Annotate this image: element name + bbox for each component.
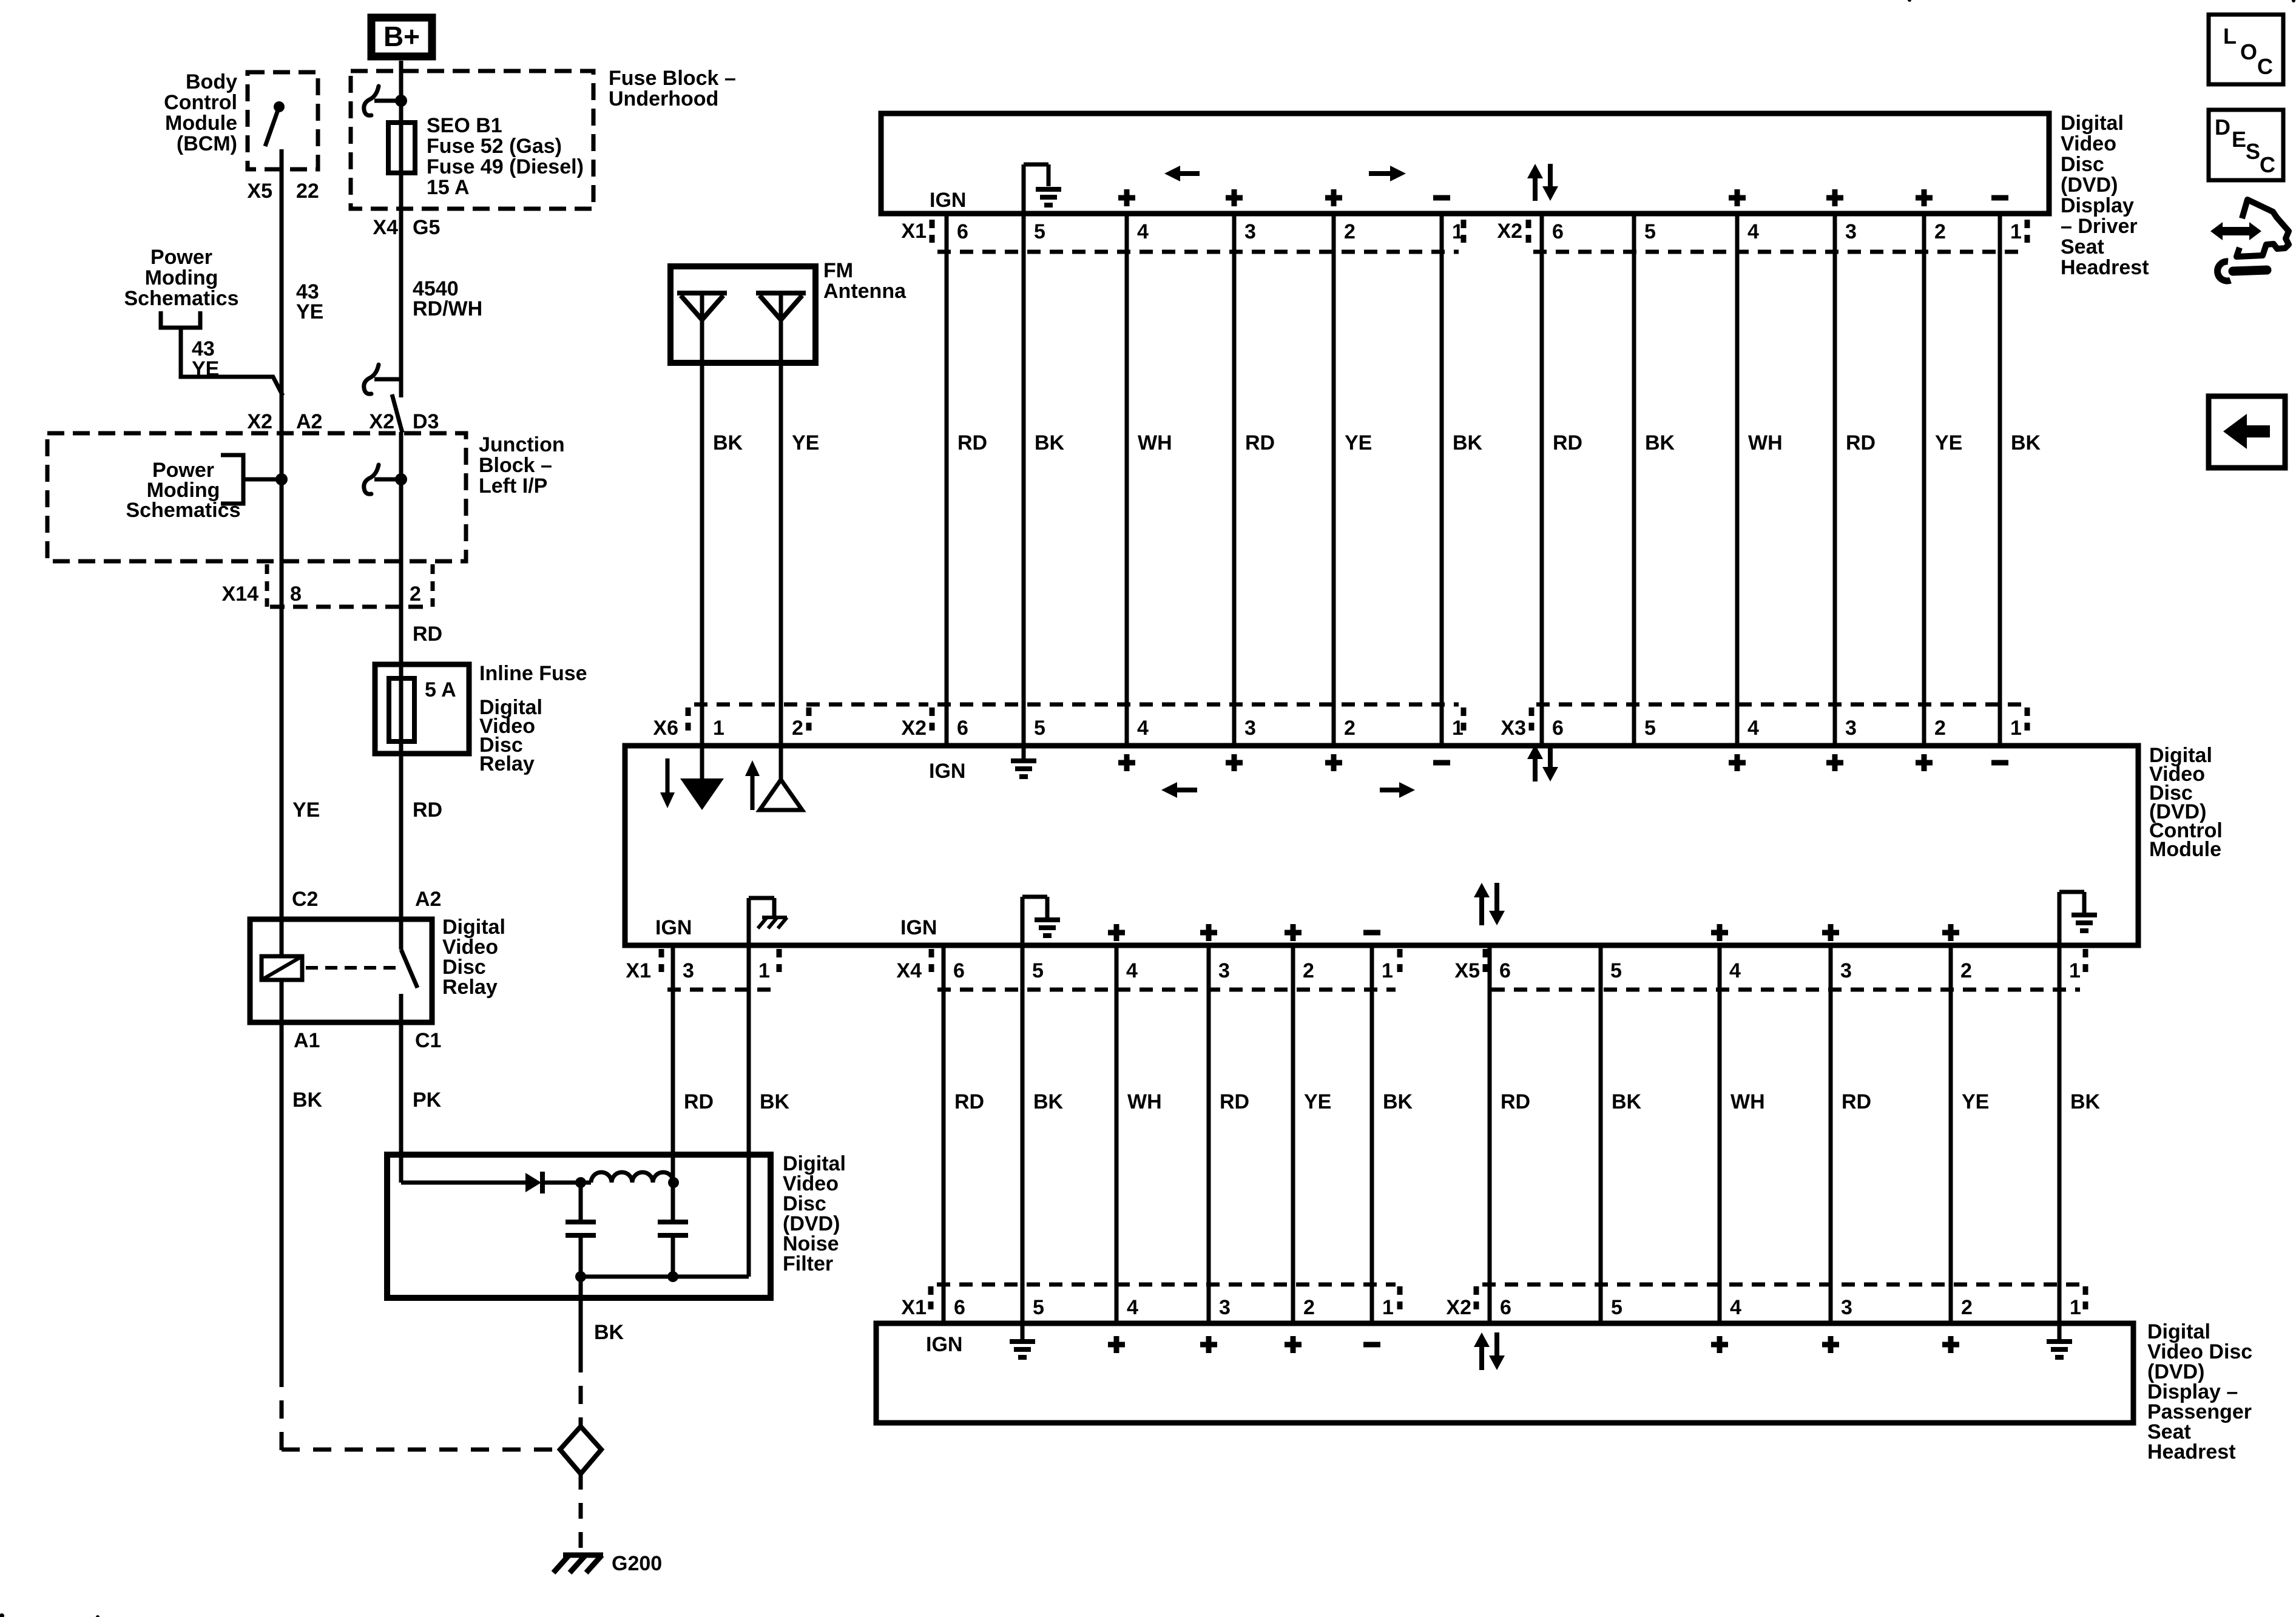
svg-text:4: 4: [1137, 220, 1149, 243]
control module plus X4-3: [1200, 924, 1217, 941]
wire X5 pin 5: [1599, 945, 1603, 1323]
svg-text:X4: X4: [896, 959, 922, 982]
control module chassis ground X1-1: [747, 898, 751, 945]
svg-text:C: C: [2257, 54, 2273, 79]
wire X4 pin 1: [1370, 945, 1374, 1323]
svg-text:6: 6: [957, 717, 968, 740]
svg-text:X3: X3: [1501, 717, 1526, 740]
svg-text:2: 2: [1344, 717, 1356, 740]
wire X5 pin 3: [1829, 945, 1833, 1323]
svg-text:G200: G200: [612, 1552, 662, 1575]
svg-text:(DVD): (DVD): [2061, 174, 2118, 197]
svg-text:– Driver: – Driver: [2061, 215, 2138, 238]
svg-text:Schematics: Schematics: [124, 287, 239, 310]
svg-text:3: 3: [683, 959, 694, 982]
relay switch stub bottom: [399, 994, 403, 1022]
control module plus X4-4: [1108, 924, 1125, 941]
svg-text:Control: Control: [164, 91, 237, 114]
svg-text:Disc: Disc: [2061, 153, 2104, 176]
svg-text:4: 4: [1729, 959, 1741, 982]
svg-text:3: 3: [1244, 220, 1256, 243]
svg-text:BK: BK: [2070, 1090, 2101, 1113]
passenger plus X1-4: [1108, 1336, 1125, 1353]
junction dot on left wire: [275, 473, 288, 485]
svg-text:BK: BK: [1645, 431, 1675, 454]
control module minus X3-1: [1991, 760, 2008, 766]
svg-text:YE: YE: [792, 431, 819, 454]
wire splice to G200: [579, 1474, 583, 1552]
connector hook at fuse block B+ entry: [364, 86, 379, 115]
svg-text:X1: X1: [901, 220, 927, 243]
svg-text:RD: RD: [1553, 431, 1582, 454]
wire fuse to X2-D3: [399, 173, 403, 397]
connector dashed X2 control: [937, 703, 1459, 707]
svg-text:Fuse Block –: Fuse Block –: [609, 67, 736, 90]
svg-text:8: 8: [290, 582, 302, 606]
wire coil to A1: [280, 980, 284, 1022]
svg-text:5: 5: [1033, 1296, 1044, 1319]
svg-text:2: 2: [1934, 220, 1946, 243]
svg-text:1: 1: [2010, 220, 2022, 243]
svg-text:WH: WH: [1748, 431, 1783, 454]
svg-text:3: 3: [1845, 717, 1857, 740]
control module ground top: [1022, 748, 1026, 758]
svg-text:Junction: Junction: [479, 433, 565, 456]
passenger plus X2-2: [1942, 1336, 1959, 1353]
svg-text:4: 4: [1747, 717, 1759, 740]
svg-text:1: 1: [713, 717, 724, 740]
svg-text:(BCM): (BCM): [177, 132, 237, 155]
svg-text:BK: BK: [760, 1090, 790, 1113]
connector dashed line X1 driver: [937, 250, 1459, 254]
inductor L1: [591, 1172, 674, 1183]
svg-text:5: 5: [1644, 717, 1656, 740]
svg-text:1: 1: [2069, 959, 2081, 982]
svg-text:C1: C1: [415, 1029, 441, 1052]
connector dashed X3 control: [1536, 703, 2022, 707]
vehicle connector location icon: [2210, 200, 2289, 281]
svg-text:X1: X1: [901, 1296, 927, 1319]
wire X4 pin 5: [1021, 945, 1025, 1323]
svg-text:3: 3: [1244, 717, 1256, 740]
driver display plus X2-4: [1729, 189, 1746, 206]
DESC icon box: [2209, 110, 2283, 180]
wire driver display col 10: [1833, 214, 1837, 748]
connector dashed X1 passenger: [937, 1283, 1396, 1287]
antenna stub YE inside module: [779, 748, 783, 781]
svg-text:3: 3: [1841, 1296, 1852, 1319]
connector dashed X2 passenger: [1482, 1283, 2080, 1287]
wire X4 pin 2: [1291, 945, 1295, 1323]
wire driver display col 6: [1440, 214, 1444, 748]
svg-text:Power: Power: [150, 246, 212, 269]
svg-text:2: 2: [1961, 1296, 1973, 1319]
wire driver display col 5: [1332, 214, 1336, 748]
junction block left I/P dashed box: [47, 433, 466, 561]
connector hook at X2-D3: [364, 365, 379, 394]
svg-text:C2: C2: [292, 888, 318, 911]
svg-text:3: 3: [1840, 959, 1852, 982]
antenna element BK: [677, 291, 727, 295]
svg-text:Display: Display: [2061, 194, 2134, 217]
wire driver display col 8: [1632, 214, 1636, 748]
passenger plus X2-4: [1711, 1336, 1728, 1353]
wire driver display col 2: [1022, 214, 1026, 748]
svg-text:2: 2: [1303, 1296, 1315, 1319]
svg-text:4: 4: [1127, 1296, 1138, 1319]
svg-text:C: C: [2260, 152, 2275, 177]
svg-text:IGN: IGN: [930, 189, 966, 212]
driver display plus X2-3: [1826, 189, 1843, 206]
svg-text:5: 5: [1611, 1296, 1622, 1319]
back arrow icon box: [2209, 396, 2285, 468]
svg-text:A2: A2: [296, 410, 322, 433]
relay coil: [262, 956, 302, 980]
svg-text:4: 4: [1730, 1296, 1741, 1319]
svg-text:1: 1: [1382, 959, 1393, 982]
svg-text:S: S: [2246, 139, 2260, 164]
wire from bracket to BCM wire: [181, 328, 283, 396]
svg-text:X2: X2: [901, 717, 927, 740]
svg-text:6: 6: [957, 220, 968, 243]
page artifact top mark 1: [1908, 0, 1911, 2]
driver display left arrow: [1179, 171, 1200, 176]
svg-text:RD: RD: [1842, 1090, 1871, 1113]
FM antenna box: [670, 266, 815, 363]
node D dot: [667, 1271, 678, 1282]
svg-text:1: 1: [2010, 717, 2022, 740]
svg-text:RD: RD: [413, 623, 442, 646]
svg-text:RD/WH: RD/WH: [413, 297, 482, 320]
svg-text:2: 2: [792, 717, 803, 740]
svg-text:SEO B1: SEO B1: [427, 114, 502, 137]
control module updown X5-6: [1479, 895, 1484, 925]
connector dashed X6: [694, 703, 928, 707]
passenger plus X1-2: [1285, 1336, 1302, 1353]
svg-text:BK: BK: [1035, 431, 1065, 454]
svg-text:2: 2: [1303, 959, 1314, 982]
svg-text:X2: X2: [369, 410, 394, 433]
antenna stub BK inside module: [700, 748, 704, 780]
diode: [525, 1173, 541, 1192]
svg-text:6: 6: [953, 959, 965, 982]
wire X5 pin 4: [1718, 945, 1722, 1323]
svg-text:15 A: 15 A: [427, 176, 470, 199]
capacitor C2 noise filter: [671, 1183, 675, 1222]
svg-text:IGN: IGN: [900, 916, 937, 939]
svg-text:Digital: Digital: [2061, 112, 2124, 135]
wire A1 BK dashed to splice: [280, 1369, 284, 1451]
control module updown X3-6: [1533, 757, 1538, 781]
svg-text:L: L: [2223, 24, 2237, 49]
DVD display passenger seat headrest box: [876, 1323, 2133, 1423]
DVD relay box: [250, 919, 432, 1022]
wire driver display col 4: [1232, 214, 1237, 748]
svg-text:Body: Body: [186, 70, 237, 93]
BCM switch blade: [265, 107, 279, 146]
svg-text:X6: X6: [653, 717, 678, 740]
driver display plus pin2: [1325, 189, 1342, 206]
svg-text:RD: RD: [1501, 1090, 1530, 1113]
svg-text:X5: X5: [247, 180, 272, 203]
wire driver display col 12: [1998, 214, 2002, 748]
svg-text:4: 4: [1747, 220, 1759, 243]
svg-text:1: 1: [758, 959, 770, 982]
svg-text:X14: X14: [222, 582, 259, 606]
svg-text:D: D: [2215, 115, 2230, 140]
control module minus X2-1: [1433, 760, 1450, 766]
svg-text:BK: BK: [2011, 431, 2041, 454]
wire X1-3 RD to noise filter: [671, 945, 675, 1155]
svg-text:1: 1: [2070, 1296, 2081, 1319]
connector dashed X4: [937, 988, 1396, 992]
svg-text:PK: PK: [413, 1089, 442, 1112]
control module right arrow: [1380, 788, 1400, 792]
svg-text:1: 1: [1382, 1296, 1394, 1319]
control module plus X5-2: [1942, 924, 1959, 941]
wire X4 pin 4: [1115, 945, 1119, 1323]
svg-text:O: O: [2240, 39, 2257, 64]
svg-text:2: 2: [1960, 959, 1972, 982]
svg-text:Relay: Relay: [479, 752, 535, 775]
control module plus X2-4: [1118, 754, 1135, 771]
svg-text:Relay: Relay: [442, 976, 498, 999]
svg-text:RD: RD: [957, 431, 987, 454]
driver display updown arrows: [1533, 176, 1538, 201]
connector hook at junction block right wire: [364, 465, 379, 494]
wire bracket to left wire: [243, 478, 282, 482]
svg-text:BK: BK: [1383, 1090, 1413, 1113]
svg-text:BK: BK: [594, 1321, 624, 1344]
svg-text:FM: FM: [823, 259, 853, 282]
svg-text:6: 6: [1552, 220, 1564, 243]
svg-text:5: 5: [1644, 220, 1656, 243]
wire X5 pin 1: [2058, 945, 2062, 1323]
wire diode to node A: [542, 1181, 591, 1185]
splice diamond: [560, 1426, 601, 1474]
svg-text:Module: Module: [165, 112, 237, 135]
wire X4 pin 3: [1207, 945, 1211, 1323]
battery feed B+ terminal: [371, 18, 432, 56]
DVD control module box: [625, 746, 2138, 945]
svg-text:X2: X2: [1497, 220, 1522, 243]
wire X5 pin 6: [1488, 945, 1492, 1323]
driver display plus pin4: [1118, 189, 1135, 206]
control module ground X4-5: [1021, 897, 1025, 945]
body control module BCM dashed box: [248, 72, 318, 169]
svg-text:YE: YE: [292, 798, 320, 822]
svg-text:Block –: Block –: [479, 454, 552, 477]
junction dot on right wire: [395, 473, 407, 485]
capacitor C1 noise filter: [579, 1183, 583, 1222]
svg-text:4: 4: [1126, 959, 1138, 982]
chassis ground G200: [563, 1553, 603, 1558]
ground rail in noise filter: [581, 1275, 749, 1279]
DVD display driver seat headrest box: [881, 113, 2049, 214]
svg-text:WH: WH: [1127, 1090, 1162, 1113]
control module plus X2-2: [1325, 754, 1342, 771]
svg-text:E: E: [2232, 127, 2246, 152]
svg-text:WH: WH: [1730, 1090, 1765, 1113]
wire PK to diode: [401, 1181, 525, 1185]
svg-text:5: 5: [1032, 959, 1044, 982]
svg-text:YE: YE: [1935, 431, 1962, 454]
svg-text:IGN: IGN: [655, 916, 692, 939]
control module plus X5-3: [1822, 924, 1839, 941]
svg-text:Filter: Filter: [783, 1252, 833, 1275]
control module plus X2-3: [1226, 754, 1243, 771]
antenna wire BK: [700, 293, 704, 748]
svg-text:A1: A1: [294, 1029, 320, 1052]
wire RD from X1-3 into filter: [671, 1155, 675, 1183]
antenna wire YE: [779, 293, 783, 748]
fuse SEO B1 52/49 15A: [388, 123, 415, 173]
svg-text:Module: Module: [2149, 838, 2221, 861]
svg-text:5: 5: [1034, 220, 1045, 243]
wire driver display col 9: [1735, 214, 1740, 748]
svg-text:Headrest: Headrest: [2061, 256, 2149, 279]
fuse block underhood dashed box: [351, 71, 593, 209]
svg-text:X1: X1: [626, 959, 651, 982]
driver display minus X2-1: [1991, 195, 2008, 201]
svg-text:6: 6: [1552, 717, 1564, 740]
driver display right arrow: [1369, 171, 1391, 176]
svg-text:RD: RD: [413, 798, 442, 822]
svg-text:Seat: Seat: [2061, 235, 2104, 258]
svg-text:RD: RD: [1220, 1090, 1249, 1113]
svg-text:6: 6: [1500, 1296, 1511, 1319]
wire C1 PK down to noise filter: [399, 1022, 403, 1183]
svg-text:X2: X2: [247, 410, 272, 433]
svg-text:2: 2: [1344, 220, 1356, 243]
svg-text:22: 22: [296, 180, 319, 203]
connector dashed line X2 driver: [1533, 250, 2022, 254]
svg-text:Video: Video: [2061, 132, 2116, 155]
svg-text:2: 2: [410, 582, 421, 606]
control module left arrow: [1176, 788, 1197, 792]
LOC icon box: [2209, 15, 2283, 84]
page artifact dot bottom left: [0, 1613, 4, 1617]
wire driver display col 7: [1540, 214, 1544, 748]
wire B+ to fuse block: [399, 61, 403, 173]
control module ground X5-1: [2058, 892, 2062, 945]
connector dashed X1 bottom: [667, 988, 775, 992]
svg-text:Underhood: Underhood: [609, 87, 718, 110]
passenger updown X2-6: [1479, 1345, 1484, 1370]
wire BK filter to ground splice: [579, 1277, 583, 1354]
passenger plus X2-3: [1822, 1336, 1839, 1353]
wire C2 into coil: [280, 919, 284, 956]
svg-text:IGN: IGN: [929, 760, 965, 783]
svg-text:3: 3: [1845, 220, 1857, 243]
driver display plus X2-2: [1916, 189, 1933, 206]
svg-text:D3: D3: [413, 410, 439, 433]
svg-text:RD: RD: [684, 1090, 714, 1113]
svg-text:Fuse 52 (Gas): Fuse 52 (Gas): [427, 135, 562, 158]
control module plus X3-2: [1916, 754, 1933, 771]
svg-text:RD: RD: [1846, 431, 1876, 454]
svg-text:Antenna: Antenna: [823, 280, 907, 303]
passenger ground X2-1: [2058, 1323, 2062, 1339]
svg-text:Moding: Moding: [145, 266, 218, 289]
wire X5 pin 2: [1949, 945, 1953, 1323]
antenna input triangle filled: [680, 778, 724, 810]
node A dot: [575, 1177, 586, 1188]
wire driver display col 11: [1922, 214, 1926, 748]
relay switch stub top: [399, 919, 403, 950]
node C dot: [575, 1271, 586, 1282]
svg-text:BK: BK: [713, 431, 743, 454]
fuse element 5A: [389, 678, 414, 741]
svg-text:3: 3: [1219, 1296, 1231, 1319]
svg-text:Left I/P: Left I/P: [479, 474, 547, 498]
svg-text:5 A: 5 A: [425, 678, 456, 701]
svg-text:B+: B+: [383, 21, 420, 52]
svg-text:Inline Fuse: Inline Fuse: [479, 662, 587, 685]
wire BCM X5-22 down to relay C2: [280, 149, 284, 919]
wire X1-1 BK to noise filter: [747, 945, 751, 1155]
connector dashed X5: [1491, 988, 2080, 992]
passenger minus X1-1: [1363, 1342, 1380, 1348]
svg-text:X2: X2: [1446, 1296, 1471, 1319]
wire X2-D3 to relay A2: [399, 432, 403, 919]
svg-text:6: 6: [1499, 959, 1511, 982]
svg-text:3: 3: [1218, 959, 1230, 982]
svg-text:WH: WH: [1138, 431, 1172, 454]
control module plus X3-3: [1826, 754, 1843, 771]
driver display ground symbol: [1022, 164, 1026, 214]
junction block X14 connector notch: [265, 564, 269, 607]
wire driver display col 3: [1125, 214, 1129, 748]
svg-text:YE: YE: [1345, 431, 1372, 454]
wire BK from X1-1 into filter: [747, 1155, 751, 1277]
svg-text:BK: BK: [1453, 431, 1483, 454]
node B dot: [668, 1177, 679, 1188]
in-line connector blade X2-D3: [392, 394, 402, 433]
wire X4 pin 6: [942, 945, 946, 1323]
antenna element YE: [756, 291, 806, 295]
BCM switch contact dot: [274, 101, 285, 112]
page artifact dot bottom: [96, 1615, 100, 1617]
svg-text:2: 2: [1934, 717, 1946, 740]
svg-text:A2: A2: [415, 888, 441, 911]
svg-text:Headrest: Headrest: [2147, 1440, 2236, 1463]
antenna input symbol BK down arrow: [666, 758, 670, 795]
svg-text:Fuse 49 (Diesel): Fuse 49 (Diesel): [427, 155, 584, 178]
svg-text:G5: G5: [413, 216, 440, 239]
junction dot on B+ wire: [395, 95, 407, 107]
driver display minus pin1: [1433, 195, 1450, 201]
relay switch blade: [401, 950, 417, 988]
antenna output symbol YE up arrow: [751, 774, 755, 810]
passenger ground X1-5: [1021, 1323, 1025, 1339]
svg-text:X4: X4: [373, 216, 398, 239]
antenna output triangle open: [760, 780, 802, 810]
svg-text:6: 6: [954, 1296, 965, 1319]
svg-text:YE: YE: [296, 300, 323, 323]
relay linkage dashed: [306, 966, 396, 970]
inline fuse box: [375, 664, 469, 754]
svg-text:BK: BK: [1612, 1090, 1642, 1113]
wire A1 BK down: [280, 1022, 284, 1369]
passenger plus X1-3: [1200, 1336, 1217, 1353]
svg-text:BK: BK: [1033, 1090, 1064, 1113]
driver display plus pin3: [1226, 189, 1243, 206]
wire driver display col 1: [945, 214, 949, 748]
page artifact top mark 2: [2292, 0, 2295, 2]
control module plus X4-2: [1285, 924, 1302, 941]
svg-text:RD: RD: [1245, 431, 1275, 454]
